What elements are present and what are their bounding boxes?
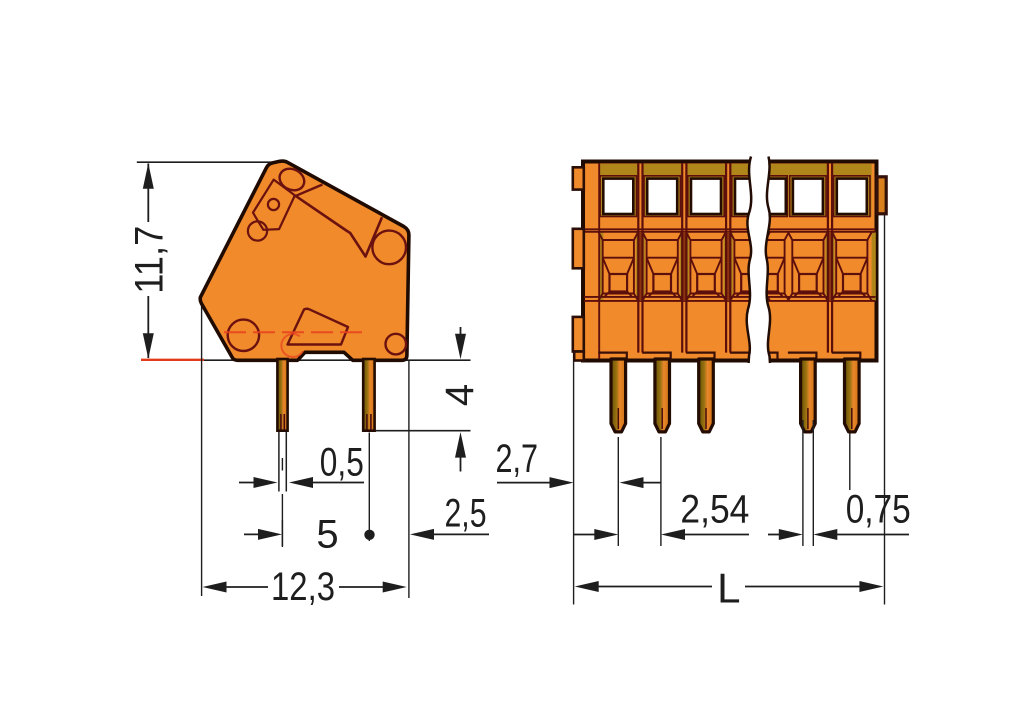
- dimension 11,7: [127, 163, 171, 359]
- left wall inner line: [598, 163, 600, 359]
- pole at 706.0: [686, 176, 726, 360]
- pins right view: [611, 359, 859, 432]
- extension line left bottom (12,3): [201, 300, 203, 596]
- pole at 851.8: [832, 176, 872, 360]
- left side tabs right view: [573, 167, 584, 360]
- right view body: [583, 162, 877, 361]
- divider at 640.4: [638, 163, 642, 353]
- svg-text:0,75: 0,75: [846, 488, 911, 532]
- right big circle: [372, 231, 406, 265]
- red pcb dashed line: [224, 331, 363, 333]
- baseline pcb line left view: [141, 359, 471, 361]
- pole at 618.3: [598, 176, 638, 360]
- extension line pin bottom (4): [375, 430, 471, 432]
- lever trapezoid: [288, 309, 349, 345]
- dimension 5 and 2,5: [244, 492, 489, 557]
- right view pole details: [584, 163, 876, 360]
- clamp hook line: [294, 185, 323, 197]
- pin at 662.2: [655, 359, 670, 432]
- svg-text:4: 4: [438, 384, 482, 406]
- break tear: [747, 154, 771, 366]
- svg-text:11,7: 11,7: [127, 226, 171, 294]
- right tab: [877, 177, 886, 214]
- cut pole at 769: [749, 176, 789, 360]
- dimension 0,5: [239, 441, 364, 488]
- pin at 706.0: [699, 359, 714, 432]
- bottom-left circle: [228, 320, 259, 351]
- band line: [584, 228, 876, 230]
- pole at 807.9: [788, 176, 828, 360]
- extension line top (11,7): [137, 161, 281, 163]
- oval detail top: [276, 165, 308, 195]
- divider at 830.0: [828, 163, 832, 353]
- olive recess areas right view: [599, 164, 876, 301]
- dimension 4: [438, 327, 482, 472]
- pocket quad: [253, 180, 295, 230]
- svg-text:2,5: 2,5: [445, 492, 487, 536]
- svg-text:12,3: 12,3: [271, 565, 335, 609]
- terminal body side view: [200, 161, 409, 360]
- bottom-right circle: [386, 334, 407, 355]
- svg-text:5: 5: [316, 512, 338, 556]
- svg-text:L: L: [717, 565, 740, 612]
- pin at 851.8: [845, 359, 860, 432]
- pole at 662.2: [642, 176, 682, 360]
- right view dimensions: [574, 488, 750, 541]
- cut pole at 750.0: [730, 176, 770, 360]
- pin at 807.9: [801, 359, 816, 432]
- small circle: [268, 199, 279, 210]
- pin at 618.3: [611, 359, 626, 432]
- extension line right (12,3 / 2,5): [408, 361, 410, 598]
- right view extension lines: [574, 215, 885, 605]
- red arc: [281, 334, 303, 357]
- svg-text:2,7: 2,7: [496, 437, 539, 481]
- svg-text:2,54: 2,54: [680, 488, 749, 532]
- pin 2 left view: [363, 359, 374, 431]
- divider at 728.2: [726, 163, 730, 353]
- clamp spring line: [295, 195, 382, 256]
- center line below pin2: [368, 433, 370, 542]
- dimension 12,3: [203, 565, 407, 609]
- left circle: [248, 221, 267, 240]
- svg-text:0,5: 0,5: [320, 441, 364, 485]
- divider at 684.3: [682, 163, 686, 353]
- pin 1 left view: [277, 359, 287, 431]
- thin pin wires below pin1: [279, 432, 286, 546]
- dimension 2,7: [496, 437, 661, 488]
